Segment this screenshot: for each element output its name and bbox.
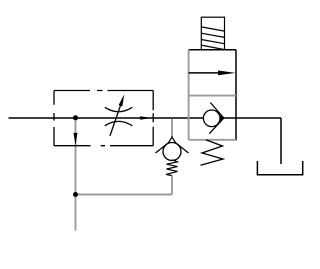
variable restrictor (throttle) arcs [105, 107, 133, 126]
wire: gray line from CV1 spring to node B line [171, 176, 173, 195]
spring of check valve CV1 [166, 160, 178, 176]
node B junction dot [73, 192, 78, 197]
check valve CV1 ball [163, 143, 181, 161]
check position of valve V1: seat lines [210, 103, 224, 119]
check valve CV1 seat lines [156, 142, 170, 153]
tank symbol T [257, 161, 302, 175]
check valve CV1 drop wire (gray) [171, 119, 173, 137]
check position of valve V1: seat wedge [220, 115, 224, 121]
wire: line from valve V1 to tank [280, 118, 282, 164]
node A junction dot [73, 115, 78, 120]
check position of valve V1: ball [203, 110, 220, 127]
solenoid coil Y1 [201, 17, 224, 50]
wire: gray horizontal line from node B to check valve bottom [76, 194, 173, 196]
arrow: downward flow arrow below node A [74, 133, 78, 145]
check valve CV1 seat triangle [168, 137, 176, 143]
wire: pilot/drain gray vertical line below junction A [75, 119, 77, 231]
wire: main flow line P to valve [9, 117, 282, 119]
arrow: flow path arrow in valve V1 [189, 72, 222, 74]
arrow: main line flow arrowhead at FC1 outlet [140, 116, 151, 120]
valve V1 body: top box (open position) [189, 49, 236, 51]
spring of valve V1 [201, 140, 224, 165]
flow control valve FC1 dashed enclosure [54, 91, 153, 146]
arrow: adjustment arrow through restrictor [110, 104, 121, 136]
